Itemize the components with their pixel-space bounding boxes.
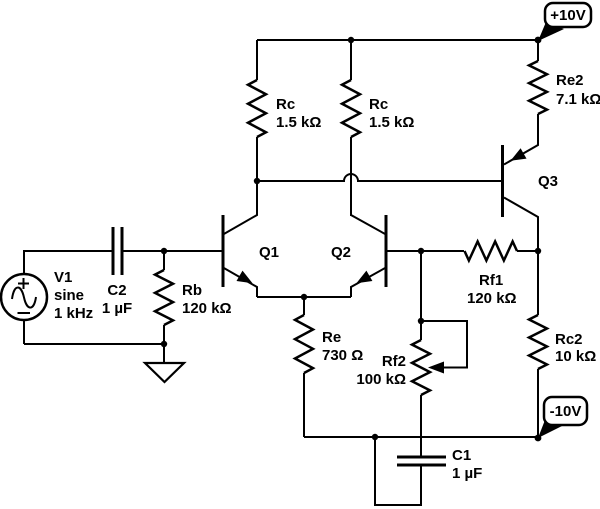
resistor Rc (left) 1.5 kΩ — [248, 40, 321, 181]
svg-text:120 kΩ: 120 kΩ — [182, 300, 232, 317]
svg-text:Re: Re — [322, 329, 341, 346]
svg-text:100 kΩ: 100 kΩ — [356, 371, 406, 388]
transistor Q3 (PNP) — [503, 114, 559, 251]
node C2 / Rb / Q1 base — [161, 248, 167, 254]
svg-text:1 kHz: 1 kHz — [54, 305, 93, 322]
svg-text:V1: V1 — [54, 269, 72, 286]
wire emitter rail Q1-Q2 — [257, 296, 351, 298]
svg-text:Q1: Q1 — [259, 244, 279, 261]
svg-text:Q2: Q2 — [331, 244, 351, 261]
wire top +10V rail — [257, 39, 538, 41]
transistor Q1 (NPN) — [223, 137, 279, 297]
wire mid rail to Q3 base with hop over Q2 collector — [257, 174, 501, 181]
resistor Rf1 120 kΩ — [465, 242, 539, 308]
resistor Rc2 10 kΩ — [529, 251, 596, 438]
wire V1 bottom to ground node — [24, 343, 164, 345]
node top rail / Re2 / +10V — [535, 37, 542, 44]
svg-text:Re2: Re2 — [556, 72, 584, 89]
wire bottom rail — [304, 436, 538, 438]
svg-text:Rc: Rc — [369, 96, 388, 113]
wire Rf2 column from base node — [420, 251, 422, 321]
node bottom rail / C1 loop — [372, 434, 378, 440]
svg-text:1.5 kΩ: 1.5 kΩ — [369, 114, 414, 131]
svg-text:1.5 kΩ: 1.5 kΩ — [276, 114, 321, 131]
svg-text:Rf1: Rf1 — [479, 272, 503, 289]
node emitter junction / Re — [301, 294, 307, 300]
svg-text:7.1 kΩ: 7.1 kΩ — [556, 91, 600, 108]
svg-text:10 kΩ: 10 kΩ — [555, 348, 596, 365]
node Q3 collector / Rf1 / Rc2 — [535, 248, 541, 254]
svg-text:C2: C2 — [107, 282, 126, 299]
resistor Re2 7.1 kΩ — [529, 40, 600, 114]
svg-text:1 µF: 1 µF — [452, 465, 482, 482]
capacitor C1 1 µF — [375, 437, 482, 505]
wire base rail Q1 base — [122, 250, 223, 252]
svg-text:Rb: Rb — [182, 282, 202, 299]
svg-text:1 µF: 1 µF — [102, 300, 132, 317]
capacitor C2 1 µF — [102, 227, 132, 317]
wire Q2 base to Rf1 — [386, 250, 464, 252]
node Rb bottom / V1 return / ground — [161, 341, 167, 347]
resistor Rc (right) 1.5 kΩ — [342, 40, 414, 216]
node bottom rail / Rc2 / -10V — [535, 435, 542, 442]
svg-text:C1: C1 — [452, 447, 471, 464]
svg-text:730 Ω: 730 Ω — [322, 347, 363, 364]
node Rf2 top / wiper loop — [418, 318, 424, 324]
svg-text:Rc: Rc — [276, 96, 295, 113]
node top rail / Rc right — [348, 37, 354, 43]
svg-text:-10V: -10V — [550, 403, 582, 420]
svg-text:Q3: Q3 — [538, 173, 558, 190]
supply label -10V — [538, 397, 587, 438]
svg-text:120 kΩ: 120 kΩ — [467, 290, 517, 307]
supply label +10V — [538, 3, 591, 41]
transistor Q2 (NPN, mirrored) — [331, 181, 386, 297]
potentiometer Rf2 100 kΩ — [356, 321, 467, 457]
node Q2 base / Rf1 / Rf2 column — [418, 248, 424, 254]
resistor Rb 120 kΩ — [155, 251, 232, 344]
svg-text:+10V: +10V — [550, 7, 585, 24]
svg-text:Rc2: Rc2 — [555, 331, 583, 348]
voltage source V1 sine 1 kHz — [1, 251, 113, 344]
svg-text:Rf2: Rf2 — [382, 353, 406, 370]
node Q1 collector / Rc left / mid rail — [254, 178, 260, 184]
ground — [145, 344, 184, 382]
resistor Re 730 Ω — [295, 297, 363, 437]
svg-text:sine: sine — [54, 287, 84, 304]
